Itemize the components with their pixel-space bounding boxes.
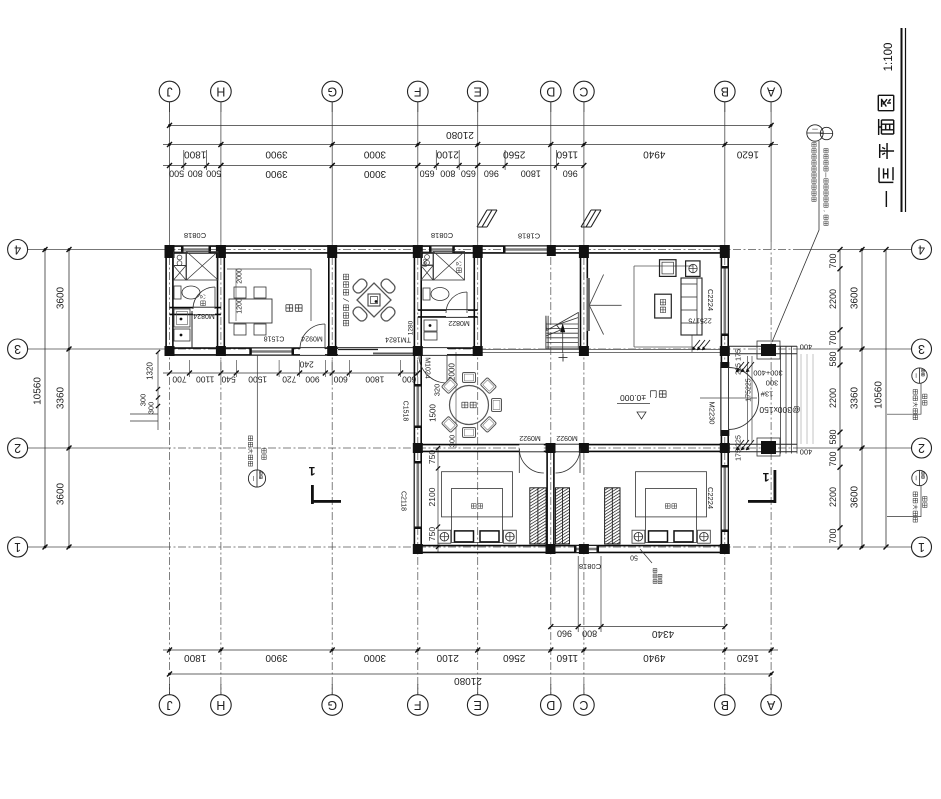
svg-text:3360: 3360 [56,386,67,409]
svg-text:1320: 1320 [146,362,155,380]
svg-text:1800: 1800 [521,169,541,179]
svg-text:3900: 3900 [265,652,288,663]
svg-text:1160: 1160 [556,652,578,663]
svg-text:C0818: C0818 [431,231,453,240]
svg-text:J: J [166,85,172,99]
svg-text:2: 2 [918,441,925,455]
svg-text:@300x150: @300x150 [759,405,801,415]
svg-text:M0824: M0824 [193,312,215,319]
svg-text:H: H [216,698,225,712]
svg-text:960: 960 [557,629,572,639]
svg-text:2200: 2200 [828,388,838,408]
svg-text:1280: 1280 [408,320,415,335]
svg-text:1800: 1800 [184,149,207,160]
svg-text:C2118: C2118 [400,491,407,511]
svg-text:2100: 2100 [427,487,437,506]
svg-text:300+400: 300+400 [753,369,782,378]
svg-text:960: 960 [563,169,578,179]
svg-text:2000: 2000 [237,268,244,284]
svg-text:700: 700 [828,253,838,268]
svg-text:C2224: C2224 [706,289,715,311]
svg-text:J: J [166,698,172,712]
svg-text:50: 50 [630,554,638,561]
svg-text:1500: 1500 [429,404,438,422]
svg-text:1:100: 1:100 [883,43,895,72]
svg-text:1100: 1100 [196,375,215,385]
svg-text:1800: 1800 [365,375,384,385]
svg-text:3600: 3600 [56,482,67,505]
svg-text:C1518: C1518 [264,335,285,342]
svg-text:C1518: C1518 [402,401,409,422]
svg-text:TM1824: TM1824 [385,336,411,343]
svg-text:700: 700 [828,330,838,345]
svg-text:M0924: M0924 [301,335,323,342]
svg-text:2100: 2100 [436,652,459,663]
svg-text:3900: 3900 [265,149,288,160]
svg-text:300: 300 [147,402,156,415]
svg-text:960: 960 [484,169,499,179]
svg-text:800: 800 [440,169,455,179]
svg-text:700: 700 [828,528,838,543]
svg-text:240: 240 [299,360,313,370]
svg-text:M0922: M0922 [519,434,541,441]
svg-text:650: 650 [461,169,476,179]
svg-text:C0818: C0818 [184,231,206,240]
svg-text:2200: 2200 [828,487,838,507]
svg-text:C1818: C1818 [518,232,540,241]
svg-text:750: 750 [427,527,437,541]
svg-text:10560: 10560 [33,377,44,405]
svg-text:800: 800 [188,169,203,179]
svg-text:2: 2 [14,441,21,455]
svg-text:4: 4 [14,243,21,257]
svg-text:A: A [766,698,775,712]
svg-text:175: 175 [736,349,743,361]
svg-text:21080: 21080 [446,129,474,140]
svg-text:1800: 1800 [184,652,207,663]
svg-text:900: 900 [305,375,319,385]
svg-text:B: B [721,698,729,712]
svg-text:2560: 2560 [503,652,526,663]
svg-text:C: C [579,85,588,99]
svg-text:E: E [474,85,482,99]
svg-text:580: 580 [828,351,838,366]
svg-text:M1024: M1024 [424,357,431,379]
svg-text:300: 300 [766,379,779,388]
svg-text:1: 1 [308,464,315,478]
svg-text:700: 700 [828,451,838,466]
svg-text:650: 650 [420,169,435,179]
svg-text:500: 500 [169,169,184,179]
svg-text:E: E [474,698,482,712]
svg-text:A: A [766,85,775,99]
svg-text:D: D [546,698,555,712]
svg-text:3600: 3600 [56,286,67,309]
svg-text:700: 700 [172,375,186,385]
svg-text:10560: 10560 [874,381,885,409]
svg-text:C: C [579,698,588,712]
svg-text:580: 580 [828,429,838,444]
svg-text:3: 3 [14,342,21,356]
svg-text:4940: 4940 [643,149,666,160]
svg-text:2200: 2200 [828,289,838,309]
svg-text:600: 600 [333,375,347,385]
svg-text:13#: 13# [760,390,773,399]
svg-text:G: G [327,698,337,712]
svg-text:1620: 1620 [736,652,759,663]
svg-text:4340: 4340 [651,628,674,639]
svg-text:175: 175 [736,449,743,461]
svg-text:600: 600 [423,259,429,268]
svg-text:±0.000: ±0.000 [620,393,646,403]
svg-text:D: D [546,85,555,99]
svg-text:225: 225 [736,435,743,447]
svg-text:2560: 2560 [503,149,526,160]
svg-text:3360: 3360 [850,386,861,409]
svg-text:3600: 3600 [850,485,861,508]
svg-text:1: 1 [14,540,21,554]
svg-text:540: 540 [221,375,235,385]
svg-text:H: H [216,85,225,99]
svg-text:1: 1 [918,540,925,554]
svg-text:M0822: M0822 [448,319,470,326]
svg-text:720: 720 [282,375,296,385]
svg-text:3000: 3000 [363,149,386,160]
svg-text:1: 1 [762,470,769,484]
svg-text:F: F [414,85,422,99]
svg-text:175225: 175225 [746,378,753,401]
svg-text:3900: 3900 [265,168,288,179]
svg-text:F: F [414,698,422,712]
svg-text:4940: 4940 [643,652,666,663]
svg-text:400: 400 [800,343,813,352]
svg-text:3000: 3000 [363,168,386,179]
svg-text:1620: 1620 [736,149,759,160]
svg-text:320: 320 [433,384,442,397]
svg-text:400: 400 [800,448,813,457]
svg-text:M0922: M0922 [556,434,578,441]
svg-text:C0818: C0818 [579,562,601,571]
svg-text:1160: 1160 [556,149,578,160]
svg-text:500: 500 [206,169,221,179]
svg-text:C2224: C2224 [706,487,715,509]
svg-text:1200: 1200 [237,298,244,314]
svg-text:M2230: M2230 [708,402,717,425]
svg-text:225175: 225175 [688,317,711,324]
svg-text:3000: 3000 [363,652,386,663]
svg-text:G: G [327,85,337,99]
svg-text:2100: 2100 [436,149,459,160]
svg-text:4: 4 [918,243,925,257]
svg-text:3: 3 [918,342,925,356]
svg-text:3600: 3600 [850,286,861,309]
svg-text:B: B [721,85,729,99]
svg-text:800: 800 [582,629,597,639]
